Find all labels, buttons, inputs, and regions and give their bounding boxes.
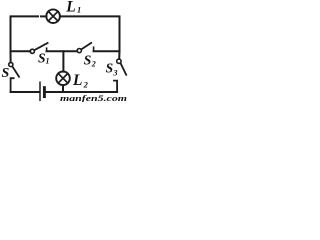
lamp L2 [56,72,70,86]
wire short dash before lamp L1 [41,15,46,17]
switch S [9,62,19,92]
switch S3 [114,59,126,92]
battery [40,82,44,100]
switch S2 [77,43,93,53]
wire middle-center segment [47,50,78,52]
wire middle-right segment [94,50,120,52]
wire L2 to bottom [62,85,64,92]
svg-text:manfen5.com: manfen5.com [60,94,127,102]
wire top-left segment [11,16,39,51]
svg-text:S: S [2,66,10,81]
wire left drop to S [10,51,12,62]
node junction to L2 [62,51,64,71]
lamp L1 [46,9,60,23]
wire top-right segment [60,16,120,51]
wire right drop to S3 [118,51,120,59]
switch S1 [30,43,47,53]
wire bottom-right segment [46,91,117,93]
wire middle-left segment [11,50,31,52]
wire bottom-left segment [11,91,39,93]
